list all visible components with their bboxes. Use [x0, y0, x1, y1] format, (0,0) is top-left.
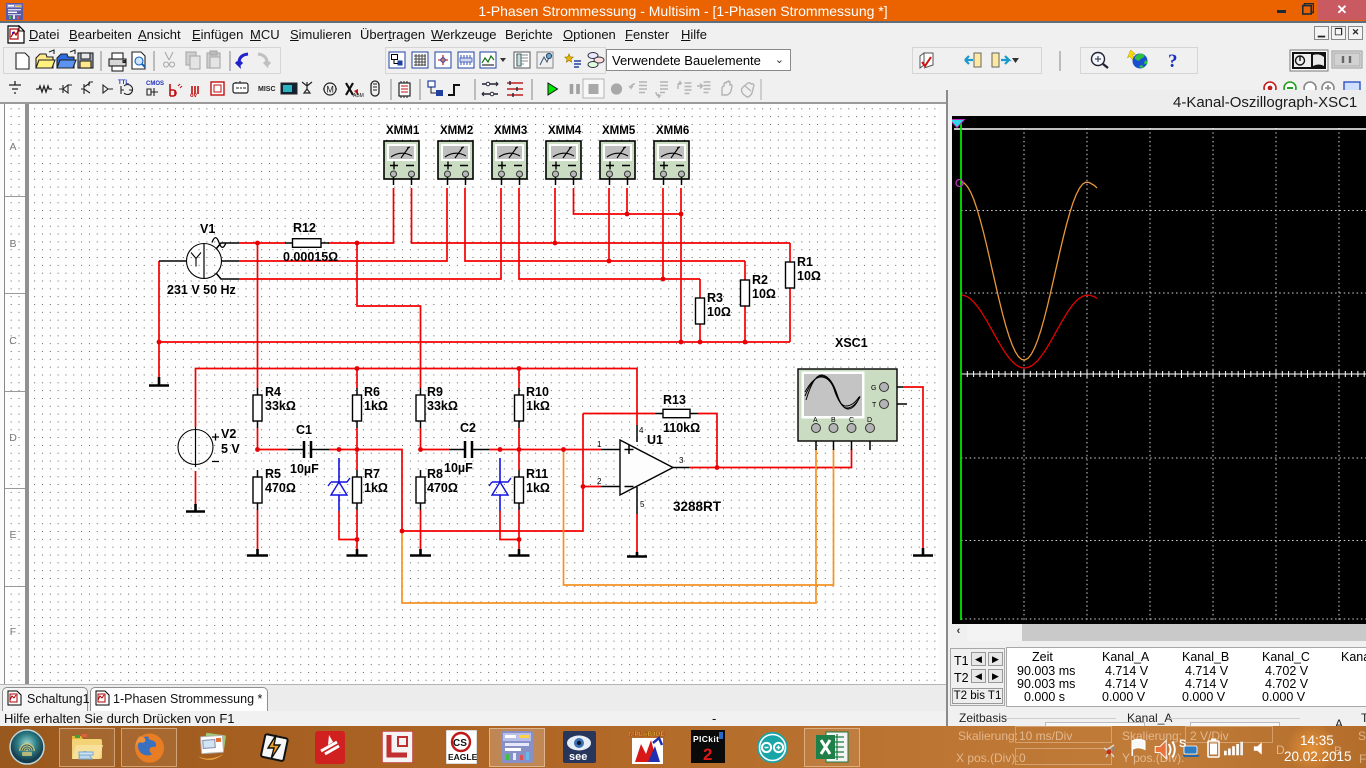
svg-text:XMM2: XMM2 [440, 125, 473, 137]
wire R12 right to bus A [328, 242, 357, 244]
wire R12 right jog down to R9 [357, 243, 421, 388]
firefox icon [133, 731, 166, 764]
wire op-amp pin5 to ground [636, 514, 638, 552]
wire XMM5 minus stub [626, 188, 628, 214]
excel icon [816, 731, 849, 763]
wire zener D1 bottom link to R7 [339, 511, 357, 540]
node XMM5 tap [607, 259, 612, 264]
svg-text:5 V: 5 V [221, 442, 240, 456]
svg-text:R1: R1 [797, 255, 813, 269]
svg-text:XMM5: XMM5 [602, 125, 636, 137]
svg-text:XMM1: XMM1 [386, 125, 420, 137]
svg-text:110kΩ: 110kΩ [663, 421, 700, 435]
tray speaker [1253, 739, 1267, 758]
svg-text:10µF: 10µF [290, 462, 319, 476]
svg-text:XMM3: XMM3 [494, 125, 527, 137]
svg-text:C: C [849, 417, 854, 424]
wire R4 bottom to node1 [257, 428, 259, 450]
svg-text:C2: C2 [460, 421, 476, 435]
ground under R8 [410, 549, 431, 556]
svg-text:MISC: MISC [258, 86, 276, 93]
stub scope C [851, 433, 853, 451]
wire R6 bottom to node1 row [356, 428, 358, 470]
svg-text:V2: V2 [221, 427, 236, 441]
wire V1 neutral down [158, 261, 160, 377]
svg-text:R2: R2 [752, 273, 768, 287]
wire R3 bottom to neutral bus [699, 324, 701, 342]
svg-text:231 V 50 Hz: 231 V 50 Hz [167, 283, 236, 297]
wire R1 bottom to neutral bus [789, 288, 791, 342]
pickit icon [691, 730, 725, 763]
eagle icon [446, 730, 477, 764]
svg-text:M: M [326, 84, 334, 94]
sketchup icon [315, 731, 345, 764]
resistor R8 [416, 470, 425, 510]
wire XMM1 right back to bus A [412, 188, 791, 243]
node D2 top [498, 447, 503, 452]
svg-text:XSC1: XSC1 [835, 336, 868, 350]
stub scope T [889, 403, 908, 405]
wire R5 bottom to ground [257, 510, 259, 549]
zener diode D1 [328, 458, 350, 511]
svg-text:A: A [813, 417, 818, 424]
node pin2 riser [581, 484, 586, 489]
node R6 R7 [355, 447, 360, 452]
node D1 R7 ground link [355, 537, 360, 542]
svg-text:R5: R5 [265, 467, 281, 481]
node common rail XMM6 [679, 212, 684, 217]
start orb [9, 729, 45, 765]
svg-text:3288RT: 3288RT [673, 499, 722, 514]
node bias R10 [517, 366, 522, 371]
stub scope G [889, 386, 904, 388]
svg-text:5: 5 [640, 500, 645, 509]
svg-text:1kΩ: 1kΩ [526, 481, 550, 495]
resistor R5 [253, 470, 262, 510]
svg-text:ov: ov [190, 93, 198, 99]
wire pin2 stub from riser [583, 486, 601, 488]
ground op-amp pin5 [627, 552, 647, 557]
wire R2 bottom to neutral bus [744, 306, 746, 342]
svg-text:33kΩ: 33kΩ [265, 399, 296, 413]
svg-text:470Ω: 470Ω [265, 481, 296, 495]
svg-text:XMM6: XMM6 [656, 125, 689, 137]
wire XMM3 right to bus C [519, 188, 700, 279]
resistor R9 [416, 388, 425, 428]
svg-text:1kΩ: 1kΩ [364, 481, 388, 495]
node channel A tap [561, 447, 566, 452]
wire R1 top lead [789, 243, 791, 262]
multisim icon (active) [501, 731, 533, 763]
wire op-amp output to scope C [689, 449, 852, 468]
resistor R6 [353, 388, 362, 428]
node R12 right junction [355, 241, 360, 246]
node neutral at V1 [157, 340, 162, 345]
svg-text:R9: R9 [427, 385, 443, 399]
svg-text:10Ω: 10Ω [707, 305, 731, 319]
wire voltmeter common rail [574, 188, 682, 214]
resistor R7 [353, 470, 362, 510]
stub scope B [833, 433, 835, 451]
wire R12 left down to R4 [257, 243, 259, 388]
wire scope channel A probe [564, 449, 834, 585]
svg-text:R13: R13 [663, 393, 686, 407]
mplab icon [628, 729, 667, 765]
arduino icon [756, 731, 789, 764]
terminal G XSC1 [880, 383, 889, 392]
wire R3 top lead [699, 279, 701, 298]
node R12 left junction [255, 241, 260, 246]
node R10 R11 [517, 447, 522, 452]
node R4 R5 C1 [255, 447, 260, 452]
ground under R11 [509, 549, 530, 556]
svg-text:TTL: TTL [118, 80, 129, 86]
capacitor C1 [288, 441, 329, 458]
wire R8 bottom to ground [420, 510, 422, 549]
svg-text:1: 1 [597, 440, 602, 449]
svg-text:R11: R11 [526, 467, 548, 481]
resistor R12 [285, 239, 329, 248]
waveform channel A (orange) [961, 182, 1097, 360]
tray signal bars [1224, 740, 1243, 757]
svg-text:XMM4: XMM4 [548, 125, 582, 137]
svg-text:D: D [867, 417, 872, 424]
svg-text:2: 2 [597, 477, 602, 486]
tray sound mixer [1154, 739, 1176, 760]
op-amp U1 [601, 425, 689, 514]
tray battery [1207, 737, 1220, 759]
ground under R5 [247, 549, 268, 556]
seeeye icon [563, 731, 596, 763]
ground scope [913, 548, 933, 556]
terminal A XSC1 [812, 424, 821, 433]
svg-text:R12: R12 [293, 221, 316, 235]
wire V1 phase A to R12 [239, 242, 286, 244]
ground under R7 [347, 549, 368, 556]
wire XMM6 plus tap on bus C [662, 188, 664, 279]
node XMM6 tap [661, 277, 666, 282]
resistor R3 [696, 298, 705, 324]
resistor R13 [655, 409, 698, 417]
resistor R11 [515, 470, 524, 510]
node R9 R8 C2 [418, 447, 423, 452]
node neutral R3 [698, 340, 703, 345]
stub scope D [869, 433, 871, 451]
terminal B XSC1 [829, 424, 838, 433]
cursor line T1 [960, 123, 962, 620]
waveform channel C (red) [961, 295, 1097, 368]
svg-text:10Ω: 10Ω [797, 269, 821, 283]
svg-text:470Ω: 470Ω [427, 481, 458, 495]
wire C1 node to inverting input riser [402, 414, 583, 532]
librecad icon [382, 731, 413, 763]
wire V2 minus to ground [195, 471, 197, 504]
svg-text:R8: R8 [427, 467, 443, 481]
wire R10 bottom to node2 row [518, 428, 520, 470]
ground V2 [186, 504, 205, 512]
explorer icon [71, 732, 104, 762]
svg-text:R3: R3 [707, 291, 723, 305]
capacitor C2 [449, 441, 489, 458]
node D2 R11 ground link [517, 537, 522, 542]
wire node2 to C2 [421, 449, 450, 451]
node XMM4 tap [553, 241, 558, 246]
resistor R10 [515, 388, 524, 428]
multimeter XMM4 [546, 141, 581, 185]
svg-text:3: 3 [679, 456, 684, 465]
zener diode D2 [489, 458, 511, 511]
wire R7 bottom to ground [356, 510, 358, 549]
wire bus A to XMM1 left [357, 188, 394, 243]
resistor R4 [253, 388, 262, 428]
wire R2 top lead [744, 261, 746, 280]
tray flag [1130, 738, 1147, 758]
multimeter XMM3 [492, 141, 527, 185]
svg-text:B: B [831, 417, 836, 424]
multimeter XMM1 [384, 141, 419, 185]
terminal T XSC1 [880, 400, 889, 409]
stub scope A [815, 433, 817, 451]
svg-text:U1: U1 [647, 433, 663, 447]
svg-text:4: 4 [639, 426, 644, 435]
wire R11 bottom to ground [518, 510, 520, 549]
node neutral common drop [679, 340, 684, 345]
node D1 top [337, 447, 342, 452]
winamp icon [258, 731, 291, 764]
wire XMM5 plus tap on bus B [608, 188, 610, 261]
resistor R1 [786, 262, 795, 288]
wire R10 top lead [518, 369, 520, 389]
svg-text:V1: V1 [200, 222, 215, 236]
svg-text:R7: R7 [364, 467, 380, 481]
svg-text:CMOS: CMOS [146, 81, 164, 87]
source V1 [159, 238, 239, 279]
svg-text:?: ? [1168, 51, 1178, 72]
svg-text:R10: R10 [526, 385, 549, 399]
wire R13 right to output [698, 414, 717, 468]
resistor R2 [741, 280, 750, 306]
svg-text:R6: R6 [364, 385, 380, 399]
node channel B tap [400, 529, 405, 534]
tray gadget icon [1102, 742, 1120, 760]
mail icon [196, 732, 230, 762]
svg-text:1kΩ: 1kΩ [526, 399, 550, 413]
wire node1 to C1 [258, 449, 289, 451]
wire scope G to ground [903, 387, 923, 548]
wire V1 phase B to XMM2 left [239, 188, 447, 261]
wire R13 left lead [583, 413, 655, 415]
node feedback to output [715, 465, 720, 470]
ground V1 [149, 377, 169, 386]
svg-text:R4: R4 [265, 385, 281, 399]
wire V2 plus up to bias rail [196, 369, 638, 428]
tray S icon [1179, 737, 1203, 761]
wire C1 right to corner [329, 450, 402, 532]
svg-text:0.00015Ω: 0.00015Ω [283, 250, 338, 264]
terminal D XSC1 [866, 424, 875, 433]
wire scope channel B probe [402, 449, 816, 603]
svg-text:10Ω: 10Ω [752, 287, 776, 301]
svg-text:10µF: 10µF [444, 461, 473, 475]
multimeter XMM2 [438, 141, 473, 185]
oscilloscope icon XSC1 [798, 369, 897, 441]
multimeter XMM6 [654, 141, 689, 185]
source V2 [178, 427, 219, 467]
wire zener D2 bottom link to R11 [500, 511, 519, 540]
svg-text:33kΩ: 33kΩ [427, 399, 458, 413]
svg-text:T: T [872, 402, 877, 409]
wire XMM2 right to bus B [465, 188, 745, 261]
node bias R6 [355, 366, 360, 371]
wire XMM4 plus tap on bus A [554, 188, 556, 243]
wire R6 top lead [356, 369, 358, 389]
node neutral R2 [743, 340, 748, 345]
wire neutral bus [159, 341, 790, 343]
wire V1 phase C to XMM3 left [239, 188, 501, 279]
svg-text:ABM: ABM [353, 93, 364, 99]
terminal C XSC1 [847, 424, 856, 433]
svg-text:C1: C1 [296, 423, 312, 437]
multimeter XMM5 [600, 141, 635, 185]
pin numbers U1 [597, 426, 684, 509]
wire C2 right to op-amp pin1 [489, 449, 601, 451]
node common rail XMM5 [625, 212, 630, 217]
wire XMM6 minus drop to neutral [680, 188, 682, 342]
wire R9 bottom to node2 [420, 428, 422, 450]
svg-text:1kΩ: 1kΩ [364, 399, 388, 413]
svg-text:G: G [871, 385, 876, 392]
